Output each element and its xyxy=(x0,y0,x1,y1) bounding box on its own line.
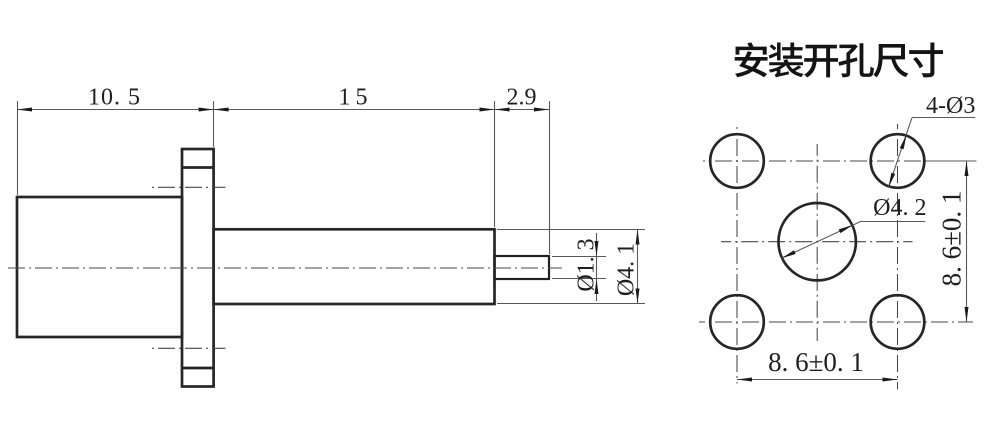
connector body (left block) xyxy=(17,197,182,337)
svg-text:4-Ø3: 4-Ø3 xyxy=(926,93,975,119)
arrow dia4.2 upper xyxy=(839,225,853,233)
arrow dia1.3 bottom xyxy=(595,279,599,294)
right holes centerline xyxy=(897,124,899,390)
svg-text:15: 15 xyxy=(339,85,373,111)
top dimension line xyxy=(17,109,549,111)
svg-text:8. 6±0. 1: 8. 6±0. 1 xyxy=(768,347,864,377)
svg-text:Ø4. 1: Ø4. 1 xyxy=(614,243,640,296)
flange plate xyxy=(182,149,214,387)
arrow dia4.2 lower xyxy=(781,250,795,258)
bottom holes centerline xyxy=(699,321,973,323)
title 安装开孔尺寸 xyxy=(735,42,943,77)
extension line at x549 xyxy=(549,101,551,254)
extension line at x17 xyxy=(17,101,19,195)
leader 4-O3 diagonal xyxy=(888,118,912,188)
main centerline xyxy=(8,267,562,269)
hole bottom-right xyxy=(871,295,925,349)
arrow 4-O3 upper xyxy=(900,135,907,150)
arrow 8.6b left xyxy=(737,378,752,382)
hole top-right xyxy=(871,134,925,188)
arrow 10.5 right xyxy=(199,108,214,112)
hole top-left xyxy=(710,134,764,188)
dim line 8.6 bottom xyxy=(737,379,898,381)
arrow dia1.3 top xyxy=(595,241,599,256)
flange hole centerline top xyxy=(150,186,226,188)
flange hole centerline bottom xyxy=(150,347,226,349)
leader dia4.2 shelf xyxy=(862,221,926,223)
dim line 8.6 vertical xyxy=(966,161,968,322)
center pin xyxy=(495,256,550,279)
arrow 8.6b right xyxy=(883,378,898,382)
ext line 8.6v top xyxy=(926,160,977,162)
flange step line bottom xyxy=(182,367,214,370)
svg-text:8. 6±0. 1: 8. 6±0. 1 xyxy=(937,191,967,287)
arrow 2.9 left xyxy=(495,108,510,112)
arrow 15 right xyxy=(480,108,495,112)
left holes centerline xyxy=(736,127,738,384)
arrow dia4.1 bottom xyxy=(636,289,640,304)
arrow dia4.1 top xyxy=(636,230,640,245)
arrow 4-O3 lower xyxy=(888,173,895,188)
extension line barrel bottom xyxy=(497,303,645,305)
center hole horizontal centerline xyxy=(721,241,913,243)
dim line dia4.1 xyxy=(637,230,639,304)
extension line pin top xyxy=(552,256,606,258)
arrow 15 left xyxy=(214,108,229,112)
svg-text:Ø1. 3: Ø1. 3 xyxy=(574,238,600,291)
svg-text:Ø4. 2: Ø4. 2 xyxy=(873,195,926,221)
extension line at x494.5 xyxy=(494,101,496,227)
arrow 10.5 left xyxy=(17,108,32,112)
svg-text:10. 5: 10. 5 xyxy=(88,85,141,111)
extension line pin bottom xyxy=(552,278,606,280)
leader 4-O3 shelf xyxy=(912,117,975,119)
center hole vertical centerline xyxy=(816,144,818,341)
arrow 8.6v top xyxy=(965,161,969,176)
center hole xyxy=(779,203,856,280)
leader dia4.2 diagonal xyxy=(781,221,861,258)
hole bottom-left xyxy=(710,295,764,349)
extension line at x214 xyxy=(213,101,215,147)
arrow 2.9 right xyxy=(534,108,549,112)
extension line barrel top xyxy=(497,229,645,231)
barrel (shaft) xyxy=(214,229,495,304)
dim line dia1.3 xyxy=(596,233,598,301)
top holes centerline xyxy=(703,160,976,162)
flange step line top xyxy=(182,166,214,169)
arrow 8.6v bottom xyxy=(965,307,969,322)
svg-text:2.9: 2.9 xyxy=(507,85,537,111)
